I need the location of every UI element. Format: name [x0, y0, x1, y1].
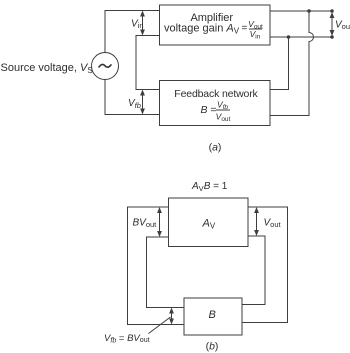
Av block box (b): [169, 198, 249, 247]
svg-text:B: B: [209, 309, 216, 321]
arrowheads Vin: [140, 11, 145, 17]
wire: source bottom to feedback network output (bottom-left): [105, 80, 160, 115]
Vin measurement arrow: [142, 14, 144, 32]
svg-text:AVB = 1: AVB = 1: [191, 181, 228, 193]
Vfb measurement arrow (a): [142, 93, 144, 111]
svg-text:Source voltage, VS: Source voltage, VS: [1, 62, 93, 75]
svg-text:=: =: [242, 23, 248, 34]
wire: bottom output down to feedback upper input: [270, 37, 289, 90]
Vfb measurement arrow (b): [171, 312, 173, 321]
feedback network block box (a): [160, 81, 271, 126]
wire: Av top-right through outer-right loop into B bottom-right: [242, 207, 288, 323]
svg-text:AV: AV: [202, 218, 216, 231]
tilde inside source circle: [99, 64, 111, 67]
wire: amplifier top output: [270, 10, 332, 12]
arrowheads BVout (b): [157, 207, 162, 213]
junction dot top output at hop branch: [307, 9, 311, 13]
arrowheads Vfb (b): [169, 308, 174, 314]
svg-text:voltage gain AV: voltage gain AV: [164, 23, 240, 36]
wire: Av bottom-right through inner-right loop into B top-right: [242, 236, 265, 305]
B block box (b): [184, 298, 242, 335]
wire: source top to amplifier input (top-left): [105, 11, 160, 53]
junction dot bottom output branch: [287, 35, 291, 39]
svg-text:(a): (a): [209, 141, 222, 153]
svg-text:Vin: Vin: [250, 29, 261, 40]
arrowheads Vout (a): [330, 12, 335, 18]
Vout measurement arrow (a): [331, 15, 333, 33]
amplifier block box (a): [160, 5, 271, 45]
svg-text:Vfb: Vfb: [217, 100, 228, 111]
wire: Av top-left through outer-left loop into B bottom-left: [128, 207, 185, 325]
pointer line from Vfb label to arrow: [149, 317, 171, 334]
svg-text:Vout: Vout: [216, 112, 231, 123]
svg-text:Vout: Vout: [264, 218, 282, 230]
arrowheads Vfb (a): [140, 90, 145, 96]
svg-text:B =: B =: [201, 104, 217, 116]
wire: Av bottom-left through inner-left loop into B top-left: [147, 237, 185, 308]
svg-text:Vfb: Vfb: [128, 98, 141, 110]
Vout measurement arrow (b): [256, 211, 258, 232]
BVout measurement arrow (b): [159, 211, 161, 233]
svg-text:BVout: BVout: [133, 218, 158, 230]
svg-text:Vout: Vout: [335, 19, 350, 31]
junction dot bottom output at Vout: [330, 35, 334, 39]
svg-text:Feedback network: Feedback network: [174, 88, 258, 100]
arrowheads Vout (b): [254, 207, 259, 213]
wire: amplifier bottom output: [270, 36, 332, 38]
svg-text:Vin: Vin: [131, 19, 144, 31]
svg-text:Vfb = BVout: Vfb = BVout: [104, 333, 150, 345]
junction dot top output at Vout: [330, 9, 334, 13]
wire: top output down with hop to feedback lower input: [270, 11, 314, 116]
wire: amplifier lower input to feedback upper output: [136, 36, 160, 90]
svg-text:(b): (b): [206, 340, 219, 352]
source voltage Vs circle: [92, 53, 119, 80]
